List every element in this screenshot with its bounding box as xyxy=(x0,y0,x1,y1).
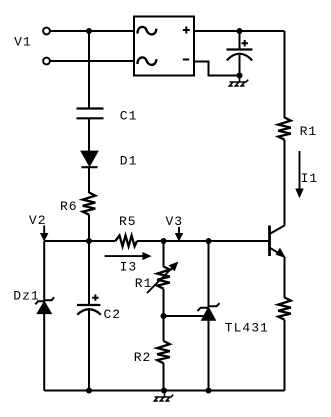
ground bottom xyxy=(154,391,173,401)
wire R2 to bottom rail xyxy=(163,363,165,390)
capacitor C0 plus sign xyxy=(242,40,248,46)
svg-text:V1: V1 xyxy=(14,34,32,49)
wire TL431 to bottom rail xyxy=(208,320,210,391)
wire emitter resistor to bottom rail xyxy=(284,320,286,391)
wire pot branch upper xyxy=(163,241,165,267)
bridge AC symbol bottom xyxy=(137,57,156,64)
current arrow I1 xyxy=(299,151,301,189)
terminal bottom xyxy=(43,58,50,65)
terminal top xyxy=(43,28,50,35)
potentiometer R1 arrow xyxy=(147,268,173,294)
transistor Q1 emitter xyxy=(270,248,283,256)
svg-text:R6: R6 xyxy=(60,199,78,214)
resistor emitter xyxy=(278,298,291,320)
capacitor C0 top plate xyxy=(227,48,253,50)
wire right rail down to R1 xyxy=(284,31,286,118)
svg-text:Dz1: Dz1 xyxy=(13,289,39,304)
wire R6 to main node xyxy=(88,215,90,241)
svg-text:C2: C2 xyxy=(104,307,122,322)
bridge plus sign xyxy=(183,27,190,34)
bridge minus sign xyxy=(183,59,189,61)
svg-text:V3: V3 xyxy=(166,214,184,229)
wire cap drop xyxy=(239,31,241,50)
wire top input xyxy=(50,30,134,32)
wire left rail down to Dz1 xyxy=(43,241,45,301)
wire bottom input xyxy=(50,60,134,62)
wire Dz1 to bottom rail xyxy=(43,313,45,390)
wire bridge - return xyxy=(194,62,240,76)
wire ref node to R2 xyxy=(163,316,165,341)
bridge AC symbol top xyxy=(137,27,156,34)
resistor R6 xyxy=(83,193,96,215)
wire ref to TL431 xyxy=(164,315,206,317)
potentiometer R1 zigzag xyxy=(157,267,170,289)
resistor R2 xyxy=(157,341,170,363)
svg-text:C1: C1 xyxy=(120,109,138,124)
wire TL431 branch upper xyxy=(208,241,210,308)
arrow V2 xyxy=(43,226,45,234)
wire down to C1 xyxy=(88,31,90,109)
node ground junction xyxy=(237,73,243,79)
wire C1 to D1 xyxy=(88,118,90,152)
node junction TL431 xyxy=(206,238,212,244)
capacitor C2 plus sign xyxy=(92,295,98,301)
transistor Q1 collector xyxy=(270,226,285,235)
node junction V2 rail at C2 xyxy=(86,238,92,244)
node junction R2 bottom xyxy=(161,388,167,394)
wire main horizontal left xyxy=(44,240,115,242)
shunt regulator TL431 xyxy=(198,303,220,311)
node junction C2 bottom xyxy=(86,388,92,394)
capacitor C1 xyxy=(77,109,104,119)
node junction pot xyxy=(161,238,167,244)
capacitor C0 curved plate xyxy=(227,54,252,61)
wire bottom rail xyxy=(44,390,284,392)
svg-text:R1: R1 xyxy=(135,276,153,291)
transistor Q1 base bar xyxy=(268,226,271,257)
wire bridge + output xyxy=(194,30,285,32)
svg-text:D1: D1 xyxy=(120,153,138,168)
diode D1 xyxy=(82,151,98,165)
arrow V3 xyxy=(178,227,180,234)
wire emitter down xyxy=(284,257,286,298)
resistor R1 xyxy=(278,118,291,140)
node junction ref xyxy=(161,313,167,319)
svg-text:R2: R2 xyxy=(134,350,152,365)
svg-text:R5: R5 xyxy=(119,214,137,229)
svg-text:I3: I3 xyxy=(120,260,138,275)
node junction at filter cap xyxy=(237,28,243,34)
svg-text:R1: R1 xyxy=(300,124,318,139)
wire cap to ground node xyxy=(239,55,241,76)
capacitor C2 curved plate xyxy=(77,309,101,315)
resistor R5 xyxy=(115,236,137,247)
wire C2 to bottom rail xyxy=(88,310,90,391)
node junction top input xyxy=(86,28,92,34)
wire D1 to R6 xyxy=(88,167,90,193)
wire main horizontal right xyxy=(137,240,268,242)
bridge rectifier box xyxy=(134,17,194,76)
current arrow I3 xyxy=(105,255,143,257)
zener Dz1 xyxy=(35,297,54,304)
svg-text:I1: I1 xyxy=(301,171,319,186)
capacitor C2 top plate xyxy=(77,304,101,306)
wire pot to ref node xyxy=(163,289,165,316)
node junction TL431 bottom xyxy=(206,388,212,394)
svg-text:TL431: TL431 xyxy=(225,321,269,336)
wire R1 to collector xyxy=(284,140,286,226)
wire C2 branch xyxy=(88,241,90,305)
ground top xyxy=(229,76,248,86)
